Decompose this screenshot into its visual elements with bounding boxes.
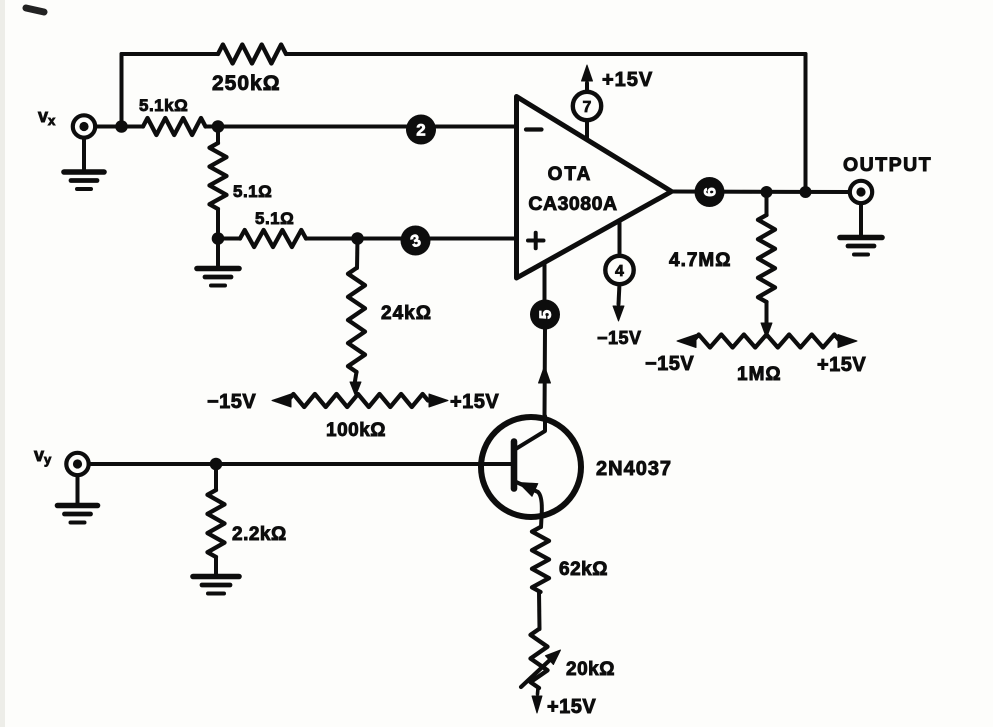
svg-text:+15V: +15V [450, 391, 499, 413]
svg-text:6: 6 [701, 187, 720, 196]
svg-text:20kΩ: 20kΩ [566, 659, 615, 680]
wire node B to op-amp minus input [206, 125, 515, 129]
arrowhead 1M left to -15V [677, 335, 696, 348]
svg-text:OUTPUT: OUTPUT [843, 154, 932, 176]
svg-text:vx: vx [38, 106, 56, 128]
potentiometer 100k zigzag [288, 394, 428, 407]
svg-text:2: 2 [416, 121, 425, 140]
input terminal Vy [66, 453, 88, 475]
transistor collector path [514, 416, 545, 450]
resistor 62k vertical [532, 527, 549, 592]
svg-text:4.7MΩ: 4.7MΩ [669, 250, 731, 271]
resistor 5.1 horizontal zigzag [218, 230, 306, 247]
wire feedback rail down to output node [804, 54, 808, 192]
node D junction [351, 232, 364, 245]
resistor 24k vertical [348, 239, 365, 382]
node B junction [212, 120, 225, 133]
wiper arrow onto 1M pot [761, 323, 772, 338]
transistor base bar [511, 442, 518, 489]
node G junction [210, 458, 223, 471]
node circle pin 6 [695, 177, 725, 207]
svg-text:7: 7 [583, 99, 592, 116]
svg-text:+15V: +15V [602, 69, 653, 91]
svg-text:5.1Ω: 5.1Ω [233, 182, 272, 201]
resistor 4.7M vertical [758, 192, 775, 324]
svg-text:100kΩ: 100kΩ [326, 420, 386, 441]
potentiometer 1M zigzag [693, 335, 840, 348]
emitter wire to 62k [539, 517, 544, 527]
svg-text:−15V: −15V [645, 353, 694, 375]
arrowhead pin 4 to -15V [613, 306, 624, 321]
svg-text:OTA: OTA [548, 164, 593, 185]
svg-text:250kΩ: 250kΩ [212, 72, 281, 95]
arrowhead 1M right to +15V [838, 335, 857, 348]
arrow through 20k (variable) [521, 650, 561, 687]
scan mark top-left [26, 8, 44, 12]
svg-text:+15V: +15V [817, 354, 866, 376]
resistor 5.1 vertical [210, 127, 227, 239]
wire Vy to transistor base [89, 462, 514, 466]
wire feedback rail left segment [122, 52, 219, 56]
arrowhead 100k left to -15V [272, 394, 291, 407]
op-amp pin 7 wire [585, 83, 589, 140]
resistor 5.1k zigzag [143, 118, 206, 135]
arrowhead pin 7 to +15V [582, 65, 593, 81]
transistor 2N4037 circle [481, 417, 581, 517]
svg-text:−15V: −15V [597, 328, 642, 348]
ground under output terminal [840, 203, 882, 254]
svg-text:5.1kΩ: 5.1kΩ [139, 96, 188, 115]
transistor emitter arrow PNP [519, 483, 538, 497]
arrowhead down to +15V supply [532, 688, 542, 713]
resistor 2.2k vertical [208, 464, 225, 574]
op-amp pin 4 wire [619, 221, 620, 305]
node circle pin 5 [530, 300, 560, 330]
wiper arrow onto 100k pot [350, 382, 361, 396]
op-amp plus input symbol [528, 233, 544, 249]
node A junction [115, 120, 128, 133]
svg-text:−15V: −15V [207, 391, 256, 413]
svg-text:4: 4 [615, 263, 624, 280]
svg-text:5: 5 [536, 310, 555, 319]
ground under Vy [58, 475, 98, 522]
node circle pin 2 [406, 115, 436, 145]
op-amp OTA CA3080A triangle [517, 97, 672, 279]
node circle pin 3 [401, 226, 431, 256]
scan left edge band [0, 0, 5, 727]
arrowhead 100k right to +15V [429, 394, 448, 407]
svg-text:+15V: +15V [547, 696, 596, 718]
ground under node C [197, 239, 239, 286]
wire Vx to node A [95, 125, 143, 129]
resistor 250k zigzag [218, 45, 286, 64]
svg-text:24kΩ: 24kΩ [381, 303, 432, 324]
wire feedback rail right segment [286, 52, 806, 56]
output terminal [850, 181, 872, 203]
pin circle 4 [605, 256, 633, 284]
wire node A up to feedback rail [120, 54, 124, 127]
node C junction [212, 232, 225, 245]
svg-text:vy: vy [34, 445, 52, 467]
pin circle 7 [573, 92, 601, 120]
wire 62k to 20k [537, 592, 542, 629]
svg-text:1MΩ: 1MΩ [737, 364, 782, 385]
svg-text:2N4037: 2N4037 [596, 458, 672, 480]
ground under 2.2k [193, 577, 239, 594]
node F junction feedback tap [800, 186, 812, 198]
svg-text:62kΩ: 62kΩ [559, 559, 608, 580]
ground under Vx [64, 138, 104, 189]
op-amp minus input symbol [526, 127, 542, 131]
op-amp pin 5 bias wire [543, 262, 548, 417]
wire to op-amp plus input [306, 237, 515, 241]
arrowhead up on bias wire [539, 366, 551, 383]
svg-text:5.1Ω: 5.1Ω [255, 209, 294, 228]
input terminal Vx [73, 115, 95, 137]
wire op-amp output [672, 190, 850, 195]
svg-text:CA3080A: CA3080A [528, 193, 617, 215]
svg-text:2.2kΩ: 2.2kΩ [232, 524, 287, 545]
node E junction 4.7M tap [761, 186, 773, 198]
resistor 20k variable zigzag [531, 629, 548, 688]
transistor emitter path [514, 481, 542, 517]
